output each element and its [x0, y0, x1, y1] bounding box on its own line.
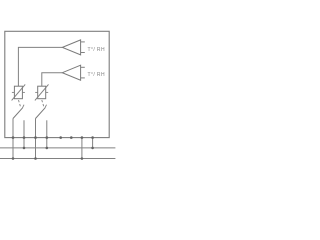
op-amp N1 output stub bottom: [81, 52, 85, 54]
terminal dot 7: [81, 136, 84, 139]
device outline box: [5, 31, 109, 137]
switch S1 pivot wire to terminal: [12, 119, 14, 138]
terminal wire 4 (S2 contact to bus 1): [46, 138, 48, 148]
terminal dot 8: [91, 136, 94, 139]
op-amp N2 output stub bottom: [81, 77, 85, 79]
terminal dot 2: [23, 136, 26, 139]
terminal dot 5: [59, 136, 62, 139]
terminal dot 3: [34, 136, 37, 139]
wire from sensor B1 to amplifier N1: [18, 47, 62, 86]
B2 adjustment diagonal: [35, 84, 49, 100]
switch S2 arm end hook: [45, 105, 47, 108]
terminal wire 1 (S1 pivot to bus 2): [12, 138, 14, 159]
bus junction dot S2 contact on bus 1: [46, 147, 49, 150]
B1 left side tick: [12, 91, 15, 93]
switch S2 contact arm: [36, 108, 46, 119]
switch S1 contact arm: [13, 108, 23, 119]
op-amp N2 output stub top: [81, 66, 85, 68]
bus junction dot S1 pivot on bus 2: [12, 157, 15, 160]
sensor element B1: [14, 86, 22, 99]
bus junction dot S2 pivot on bus 2: [34, 157, 37, 160]
terminal wire 3 (S2 pivot to bus 2): [35, 138, 37, 159]
switch S1 arm end hook: [22, 105, 24, 108]
mechanical link B2 to switch S2 (dashed): [42, 100, 44, 107]
svg-text:T°/ RH: T°/ RH: [88, 47, 105, 53]
supply bus line 1: [0, 147, 115, 149]
op-amp N1 output stub top: [81, 41, 85, 43]
terminal dot 4: [46, 136, 49, 139]
bus junction dot output on bus 1: [91, 147, 94, 150]
B1 right side tick: [22, 91, 25, 93]
op-amp N1 (pointing left): [62, 40, 80, 55]
terminal wire 5 (output terminal to bus 2): [81, 138, 83, 159]
B1 adjustment diagonal: [12, 84, 26, 100]
supply bus line 2: [0, 158, 115, 160]
op-amp N2 (pointing left): [62, 65, 80, 80]
switch S1 fixed contact: [23, 120, 25, 137]
B2 left side tick: [35, 91, 38, 93]
terminal dot 6: [70, 136, 73, 139]
bus junction dot output on bus 2: [81, 157, 84, 160]
svg-text:T°/ RH: T°/ RH: [88, 72, 105, 78]
bus junction dot S1 contact on bus 1: [23, 147, 26, 150]
switch S2 fixed contact: [46, 120, 48, 137]
terminal wire 2 (S1 contact to bus 1): [23, 138, 25, 148]
B2 right side tick: [46, 91, 49, 93]
terminal dot 1: [12, 136, 15, 139]
wire from sensor B2 to amplifier N2: [42, 73, 63, 87]
terminal wire 6 (output terminal to bus 1): [92, 138, 94, 148]
switch S2 pivot wire to terminal: [35, 119, 37, 138]
sensor element B2: [38, 86, 46, 99]
mechanical link B1 to switch S1 (dashed): [19, 100, 21, 107]
